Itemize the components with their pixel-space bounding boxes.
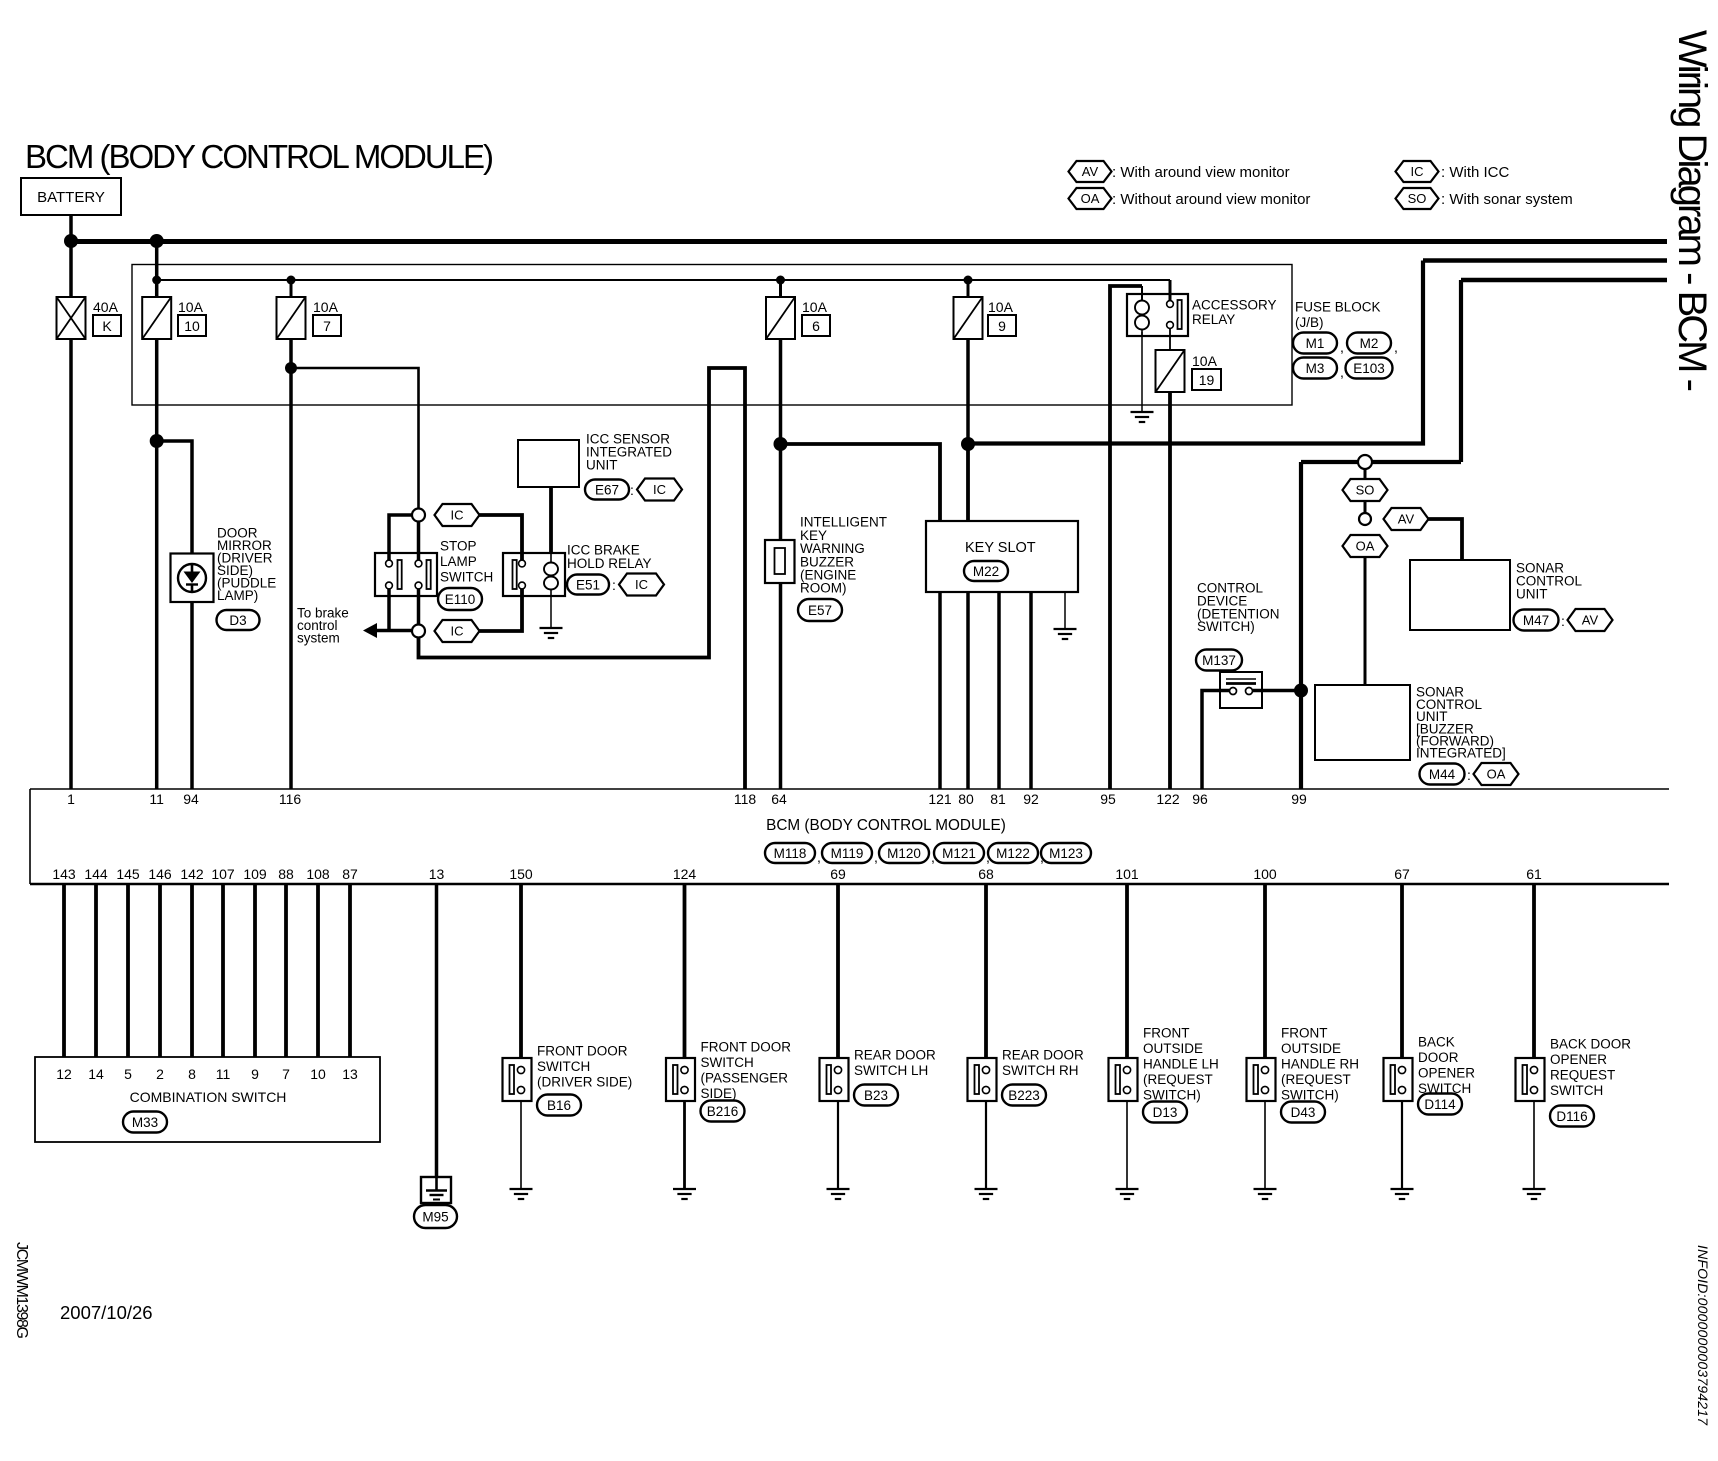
wire bus to fuse K — [69, 241, 73, 297]
svg-text:LAMP): LAMP) — [217, 588, 258, 603]
pin label 143 — [52, 866, 76, 882]
svg-text:AV: AV — [1082, 164, 1099, 179]
wire innerbus to fuse 7 — [290, 280, 293, 297]
wire BCM to combination switch pin 13 — [348, 884, 352, 1057]
connector hexagon IC upper — [435, 504, 480, 526]
legend connector SO — [1396, 188, 1439, 209]
svg-text:M137: M137 — [1202, 653, 1236, 668]
comma after M119 — [874, 849, 878, 865]
pin label 101 — [1115, 866, 1139, 882]
wire BCM to combination switch pin 2 — [158, 884, 162, 1057]
svg-text:81: 81 — [990, 791, 1006, 807]
wire door mirror to pin 94 — [190, 602, 194, 789]
connector M119 — [822, 843, 872, 863]
wire detention to x1301 — [1253, 689, 1301, 693]
door switch B23 — [820, 1058, 849, 1101]
svg-text:67: 67 — [1394, 866, 1410, 882]
stop lamp switch label — [440, 539, 493, 585]
svg-text:OA: OA — [1081, 191, 1100, 206]
connector B16 — [537, 1095, 581, 1116]
pin label 68 — [978, 866, 994, 882]
svg-text:M2: M2 — [1360, 336, 1379, 351]
svg-text:92: 92 — [1023, 791, 1039, 807]
wire innerbus to fuse 6 — [779, 280, 782, 297]
svg-text:E51: E51 — [576, 577, 600, 592]
wire key slot pin 121 — [938, 592, 942, 789]
svg-text:10A: 10A — [988, 299, 1014, 315]
wire BCM to combination switch pin 10 — [316, 884, 320, 1057]
combination switch box — [35, 1057, 380, 1142]
svg-text:OUTSIDE: OUTSIDE — [1281, 1041, 1341, 1056]
combination switch pin label 13 — [342, 1066, 358, 1082]
svg-text:95: 95 — [1100, 791, 1116, 807]
wire circle down to contact — [417, 522, 421, 563]
svg-text:REAR DOOR: REAR DOOR — [1002, 1048, 1084, 1063]
combination switch pin label 5 — [124, 1066, 132, 1082]
title text — [25, 138, 494, 175]
svg-text:(REQUEST: (REQUEST — [1143, 1072, 1213, 1087]
connector M44 — [1420, 764, 1465, 785]
BCM box bottom line — [30, 883, 1669, 886]
pin label 13 — [429, 866, 445, 882]
BCM label — [766, 817, 1006, 834]
svg-text:FUSE BLOCK: FUSE BLOCK — [1295, 300, 1381, 315]
svg-text:9: 9 — [998, 318, 1006, 334]
svg-text:M22: M22 — [973, 564, 999, 579]
pin label 11 — [149, 791, 164, 807]
key slot label — [965, 540, 1036, 556]
svg-text:101: 101 — [1115, 866, 1139, 882]
wire BCM to combination switch pin 12 — [62, 884, 66, 1057]
svg-text:Wiring Diagram - BCM -: Wiring Diagram - BCM - — [1670, 30, 1714, 392]
wire BCM to combination switch pin 9 — [253, 884, 257, 1057]
svg-text:D114: D114 — [1424, 1097, 1456, 1112]
svg-text:IC: IC — [1411, 164, 1424, 179]
svg-text:D3: D3 — [229, 613, 246, 628]
pin label 64 — [771, 791, 787, 807]
svg-text:19: 19 — [1199, 372, 1215, 388]
ICC brake hold relay box — [503, 553, 565, 596]
fusible link 40A K — [57, 297, 86, 339]
svg-text:96: 96 — [1192, 791, 1208, 807]
comma after M2 — [1394, 339, 1398, 355]
legend connector IC — [1396, 161, 1439, 182]
wire D43 to ground — [1264, 1101, 1266, 1189]
svg-text:BCM (BODY CONTROL MODULE): BCM (BODY CONTROL MODULE) — [25, 138, 494, 175]
svg-text:INTEGRATED]: INTEGRATED] — [1416, 746, 1506, 761]
pin label 69 — [830, 866, 846, 882]
infoid text — [1695, 1245, 1711, 1426]
svg-text:FRONT DOOR: FRONT DOOR — [537, 1044, 628, 1059]
wire relay coil to ground — [550, 596, 552, 628]
pin label 94 — [183, 791, 199, 807]
svg-text:146: 146 — [148, 866, 172, 882]
connector M121 — [934, 843, 984, 863]
connector hexagon SO — [1343, 479, 1388, 501]
wire key slot ground — [1064, 592, 1066, 629]
svg-text:10A: 10A — [178, 299, 204, 315]
door switch B16 — [503, 1058, 532, 1101]
pin label 100 — [1253, 866, 1277, 882]
wire innerbus to fuse 9 — [967, 280, 970, 297]
wire bus3 horizontal — [1461, 278, 1667, 283]
svg-text:FRONT: FRONT — [1143, 1026, 1190, 1041]
svg-text:REAR DOOR: REAR DOOR — [854, 1048, 936, 1063]
sonar control unit M47 box — [1410, 560, 1510, 630]
comma after M118 — [817, 849, 821, 865]
svg-text:SWITCH: SWITCH — [440, 570, 493, 585]
door switch B216 — [666, 1058, 695, 1101]
svg-text:11: 11 — [216, 1066, 231, 1082]
svg-text:11: 11 — [149, 791, 164, 807]
wire right contact to circle — [417, 589, 421, 625]
svg-text:M120: M120 — [887, 846, 921, 861]
svg-text:61: 61 — [1526, 866, 1542, 882]
connector IC after E51 — [619, 574, 664, 596]
connector OA after M44 — [1474, 763, 1519, 785]
pin label 81 — [990, 791, 1006, 807]
ground key slot — [1054, 629, 1077, 639]
wire IC hex to relay contact — [480, 515, 523, 562]
svg-text:D13: D13 — [1153, 1105, 1178, 1120]
battery B1 — [21, 178, 121, 215]
svg-text:: Without around view monitor: : Without around view monitor — [1112, 191, 1310, 208]
svg-text:M119: M119 — [831, 846, 864, 861]
wire bus to fuse 10 — [155, 241, 159, 297]
svg-text:AV: AV — [1582, 613, 1599, 628]
wire lower circle to pin 118 — [419, 368, 746, 789]
svg-text:8: 8 — [188, 1066, 196, 1082]
junction dot stop lamp branch — [285, 362, 297, 374]
pin label 92 — [1023, 791, 1039, 807]
wire key slot pin 92 — [1029, 592, 1033, 789]
connector E110 — [438, 588, 482, 610]
svg-text:B223: B223 — [1008, 1088, 1040, 1103]
wire AV hex to sonar M47 — [1429, 519, 1463, 560]
connector M123 — [1041, 843, 1091, 863]
svg-text:SWITCH): SWITCH) — [1197, 619, 1255, 634]
accessory relay label — [1192, 298, 1277, 328]
connector M118 — [765, 843, 815, 863]
comma after M1 — [1340, 339, 1344, 355]
junction dot D3 branch — [150, 434, 164, 448]
svg-text:1: 1 — [67, 791, 75, 807]
wire branch to door mirror — [157, 441, 192, 554]
wire B216 to ground — [683, 1101, 686, 1189]
svg-text:64: 64 — [771, 791, 787, 807]
wire circle to left contact — [389, 515, 412, 562]
svg-text:6: 6 — [812, 318, 820, 334]
wire BCM to D116 — [1532, 884, 1536, 1058]
wire fuse 9 to dot — [966, 339, 970, 444]
svg-text:: With ICC: : With ICC — [1441, 164, 1510, 181]
sonar control unit M47 label — [1516, 561, 1582, 602]
junction dot detention — [1294, 684, 1308, 698]
combination switch pin label 9 — [251, 1066, 259, 1082]
svg-text:14: 14 — [88, 1066, 104, 1082]
wire dot to key slot pin121 — [781, 444, 941, 521]
svg-text:118: 118 — [734, 791, 757, 807]
legend text SO — [1441, 191, 1573, 208]
svg-text:SWITCH: SWITCH — [537, 1059, 590, 1074]
legend connector AV — [1069, 161, 1112, 182]
wire battery to bus — [69, 215, 73, 241]
label 10A fuse7 — [313, 299, 339, 315]
pin label 88 — [278, 866, 294, 882]
svg-text:DOOR: DOOR — [1418, 1050, 1459, 1065]
ground D43 — [1254, 1189, 1277, 1199]
wire BCM to B216 — [683, 884, 687, 1058]
ICC brake relay contact — [513, 560, 526, 589]
inner bus dot fuse10 — [152, 276, 161, 285]
svg-text:BACK DOOR: BACK DOOR — [1550, 1037, 1631, 1052]
pin label 96 — [1192, 791, 1208, 807]
inner bus dot fuse6 — [776, 276, 785, 285]
fuse block outline — [132, 265, 1292, 406]
svg-text:D116: D116 — [1556, 1109, 1587, 1124]
svg-text:SWITCH: SWITCH — [701, 1055, 754, 1070]
svg-text:ROOM): ROOM) — [800, 581, 847, 596]
D13 label — [1143, 1026, 1219, 1103]
pin label 124 — [673, 866, 697, 882]
svg-text:M118: M118 — [774, 846, 807, 861]
svg-text:116: 116 — [279, 791, 302, 807]
svg-text:SWITCH: SWITCH — [1550, 1083, 1603, 1098]
svg-text:UNIT: UNIT — [586, 458, 618, 473]
wire B16 to ground — [520, 1101, 522, 1189]
pin label 116 — [279, 791, 302, 807]
legend text AV — [1112, 164, 1290, 181]
connector D116 — [1550, 1106, 1594, 1127]
wire fuse 10 to pin 11 — [155, 339, 159, 789]
svg-text:SO: SO — [1356, 483, 1375, 498]
wire y462 horizontal — [1301, 460, 1461, 464]
ground D114 — [1391, 1189, 1414, 1199]
svg-text:M122: M122 — [996, 846, 1030, 861]
svg-text:E67: E67 — [595, 482, 619, 497]
connector E57 — [798, 599, 842, 621]
accessory relay contact — [1167, 300, 1182, 329]
ICC brake relay coil — [544, 553, 558, 596]
svg-text:HOLD RELAY: HOLD RELAY — [567, 556, 652, 571]
label 10 box — [178, 315, 206, 336]
svg-text:(REQUEST: (REQUEST — [1281, 1072, 1351, 1087]
svg-text:IC: IC — [653, 482, 666, 497]
wire key slot pin 80 — [966, 592, 970, 789]
svg-text:69: 69 — [830, 866, 846, 882]
svg-text:B216: B216 — [707, 1104, 739, 1119]
ICC brake relay label — [567, 543, 652, 572]
B223 label — [1002, 1048, 1084, 1079]
wire innerbus into relay contact — [1169, 280, 1172, 301]
svg-text:LAMP: LAMP — [440, 554, 477, 569]
svg-text:142: 142 — [180, 866, 204, 882]
wire branch to stop lamp — [291, 368, 419, 509]
svg-text:B16: B16 — [547, 1098, 571, 1113]
legend connector OA — [1069, 188, 1112, 209]
wire BCM to D114 — [1400, 884, 1404, 1058]
date text — [60, 1302, 153, 1323]
wire pin 13 to M95 — [435, 884, 439, 1177]
pin label 118 — [734, 791, 757, 807]
connector D13 — [1143, 1102, 1187, 1123]
svg-text:5: 5 — [124, 1066, 132, 1082]
door switch D43 — [1247, 1058, 1276, 1101]
label 6 box — [802, 315, 830, 336]
svg-text:OUTSIDE: OUTSIDE — [1143, 1041, 1203, 1056]
svg-text::: : — [612, 577, 616, 593]
svg-text:SIDE): SIDE) — [701, 1086, 737, 1101]
wire BCM to B223 — [984, 884, 988, 1058]
svg-text:143: 143 — [52, 866, 76, 882]
wire bus2 horizontal — [1423, 258, 1667, 263]
svg-text:,: , — [1394, 339, 1398, 355]
svg-text:(PASSENGER: (PASSENGER — [701, 1071, 789, 1086]
wire fuse K to pin 1 — [69, 339, 73, 789]
detention switch box — [1220, 672, 1262, 708]
BCM box left edge — [29, 789, 31, 884]
pin label 144 — [84, 866, 108, 882]
connector E51 — [567, 575, 609, 595]
svg-text:OA: OA — [1356, 539, 1375, 554]
pin label 67 — [1394, 866, 1410, 882]
svg-text:7: 7 — [282, 1066, 290, 1082]
legend text IC — [1441, 164, 1510, 181]
ground B223 — [975, 1189, 998, 1199]
svg-text:7: 7 — [323, 318, 331, 334]
colon after M47 — [1561, 613, 1565, 629]
connector D43 — [1281, 1102, 1325, 1123]
pin label 109 — [243, 866, 267, 882]
label 7 box — [313, 315, 341, 336]
BCM box top line — [30, 788, 1669, 790]
door mirror label — [217, 526, 276, 604]
fuse 10A 19 — [1156, 350, 1185, 392]
svg-text:10A: 10A — [313, 299, 339, 315]
svg-text:M3: M3 — [1306, 361, 1325, 376]
svg-text:2: 2 — [156, 1066, 164, 1082]
pin label 87 — [342, 866, 358, 882]
wire SO hex to circle2 — [1364, 501, 1367, 513]
svg-text:109: 109 — [243, 866, 267, 882]
svg-text:system: system — [297, 631, 340, 646]
svg-text:9: 9 — [251, 1066, 259, 1082]
svg-text:INFOID:0000000003794217: INFOID:0000000003794217 — [1695, 1245, 1711, 1426]
stop lamp switch box — [375, 553, 437, 596]
key slot box — [926, 521, 1078, 592]
wire relay contact to IC hex — [480, 589, 523, 631]
svg-text:2007/10/26: 2007/10/26 — [60, 1302, 153, 1323]
fuse 10A 10 — [142, 297, 171, 339]
svg-text:ACCESSORY: ACCESSORY — [1192, 298, 1277, 313]
accessory relay box — [1127, 294, 1188, 336]
svg-text:: With around view monitor: : With around view monitor — [1112, 164, 1290, 181]
connector IC after E67 — [637, 479, 682, 501]
svg-text:REQUEST: REQUEST — [1550, 1068, 1615, 1083]
junction dot fuse6 net — [774, 437, 788, 451]
pin label 145 — [116, 866, 140, 882]
svg-text:94: 94 — [183, 791, 199, 807]
svg-text:IC: IC — [451, 624, 464, 639]
wire OA to sonar M44 — [1364, 557, 1367, 685]
door mirror lamp D3 box — [171, 554, 214, 603]
svg-text:150: 150 — [509, 866, 533, 882]
D114 label — [1418, 1035, 1475, 1097]
to brake control label — [297, 606, 349, 646]
svg-text:OPENER: OPENER — [1550, 1052, 1607, 1067]
ground B216 — [673, 1189, 696, 1199]
label 10A fuse6 — [802, 299, 828, 315]
connector circle SO branch — [1358, 455, 1372, 469]
connector M122 — [988, 843, 1038, 863]
svg-text:FRONT: FRONT — [1281, 1026, 1328, 1041]
colon after M44 — [1467, 767, 1471, 783]
connector E67 — [585, 480, 629, 500]
wire dot to buzzer — [779, 444, 783, 540]
connector circle AV branch — [1359, 513, 1371, 525]
wire D114 to ground — [1401, 1101, 1403, 1189]
colon after E67 — [630, 482, 634, 498]
wire B223 to ground — [985, 1101, 987, 1189]
combination switch pin label 8 — [188, 1066, 196, 1082]
door switch D13 — [1109, 1058, 1138, 1101]
fuse 10A 9 — [954, 297, 983, 339]
wire dot to key slot pin80 — [966, 444, 970, 521]
combination switch pin label 12 — [56, 1066, 72, 1082]
svg-text:12: 12 — [56, 1066, 72, 1082]
svg-text:88: 88 — [278, 866, 294, 882]
svg-text:10: 10 — [184, 318, 200, 334]
svg-text:122: 122 — [1156, 791, 1180, 807]
connector M3 — [1293, 358, 1337, 379]
svg-text:40A: 40A — [93, 299, 119, 315]
svg-text:AV: AV — [1398, 512, 1415, 527]
wire coil to ground — [1141, 332, 1143, 412]
combination switch pin label 7 — [282, 1066, 290, 1082]
wire left contact to brake line — [387, 589, 391, 631]
svg-text:SWITCH RH: SWITCH RH — [1002, 1063, 1079, 1078]
pin label 146 — [148, 866, 172, 882]
svg-text:COMBINATION SWITCH: COMBINATION SWITCH — [130, 1089, 287, 1105]
wire key slot pin 81 — [997, 592, 1001, 789]
svg-text:(J/B): (J/B) — [1295, 315, 1324, 330]
svg-text:UNIT: UNIT — [1516, 587, 1548, 602]
wire ICC sensor to relay coil — [549, 487, 553, 553]
ground D13 — [1116, 1189, 1139, 1199]
connector M137 — [1196, 650, 1242, 671]
wire x1301 to pin 99 — [1299, 462, 1303, 789]
svg-text:121: 121 — [928, 791, 952, 807]
pin label 99 — [1291, 791, 1307, 807]
combination switch pin label 11 — [216, 1066, 231, 1082]
inner bus dot fuse9 — [964, 276, 973, 285]
svg-text:SWITCH LH: SWITCH LH — [854, 1063, 928, 1078]
wire coil feed from pin95 — [1110, 286, 1142, 789]
svg-text:145: 145 — [116, 866, 140, 882]
door switch B223 — [968, 1058, 997, 1101]
svg-text:E57: E57 — [808, 603, 832, 618]
svg-text:OPENER: OPENER — [1418, 1066, 1475, 1081]
connector E103 — [1346, 358, 1393, 379]
svg-text:99: 99 — [1291, 791, 1307, 807]
ground B23 — [827, 1189, 850, 1199]
comma after M122 — [1040, 849, 1044, 865]
svg-text:(DRIVER SIDE): (DRIVER SIDE) — [537, 1075, 632, 1090]
svg-text:,: , — [817, 849, 821, 865]
svg-text:10A: 10A — [1192, 353, 1218, 369]
connector hexagon OA — [1343, 535, 1388, 557]
svg-text:M33: M33 — [132, 1115, 158, 1130]
